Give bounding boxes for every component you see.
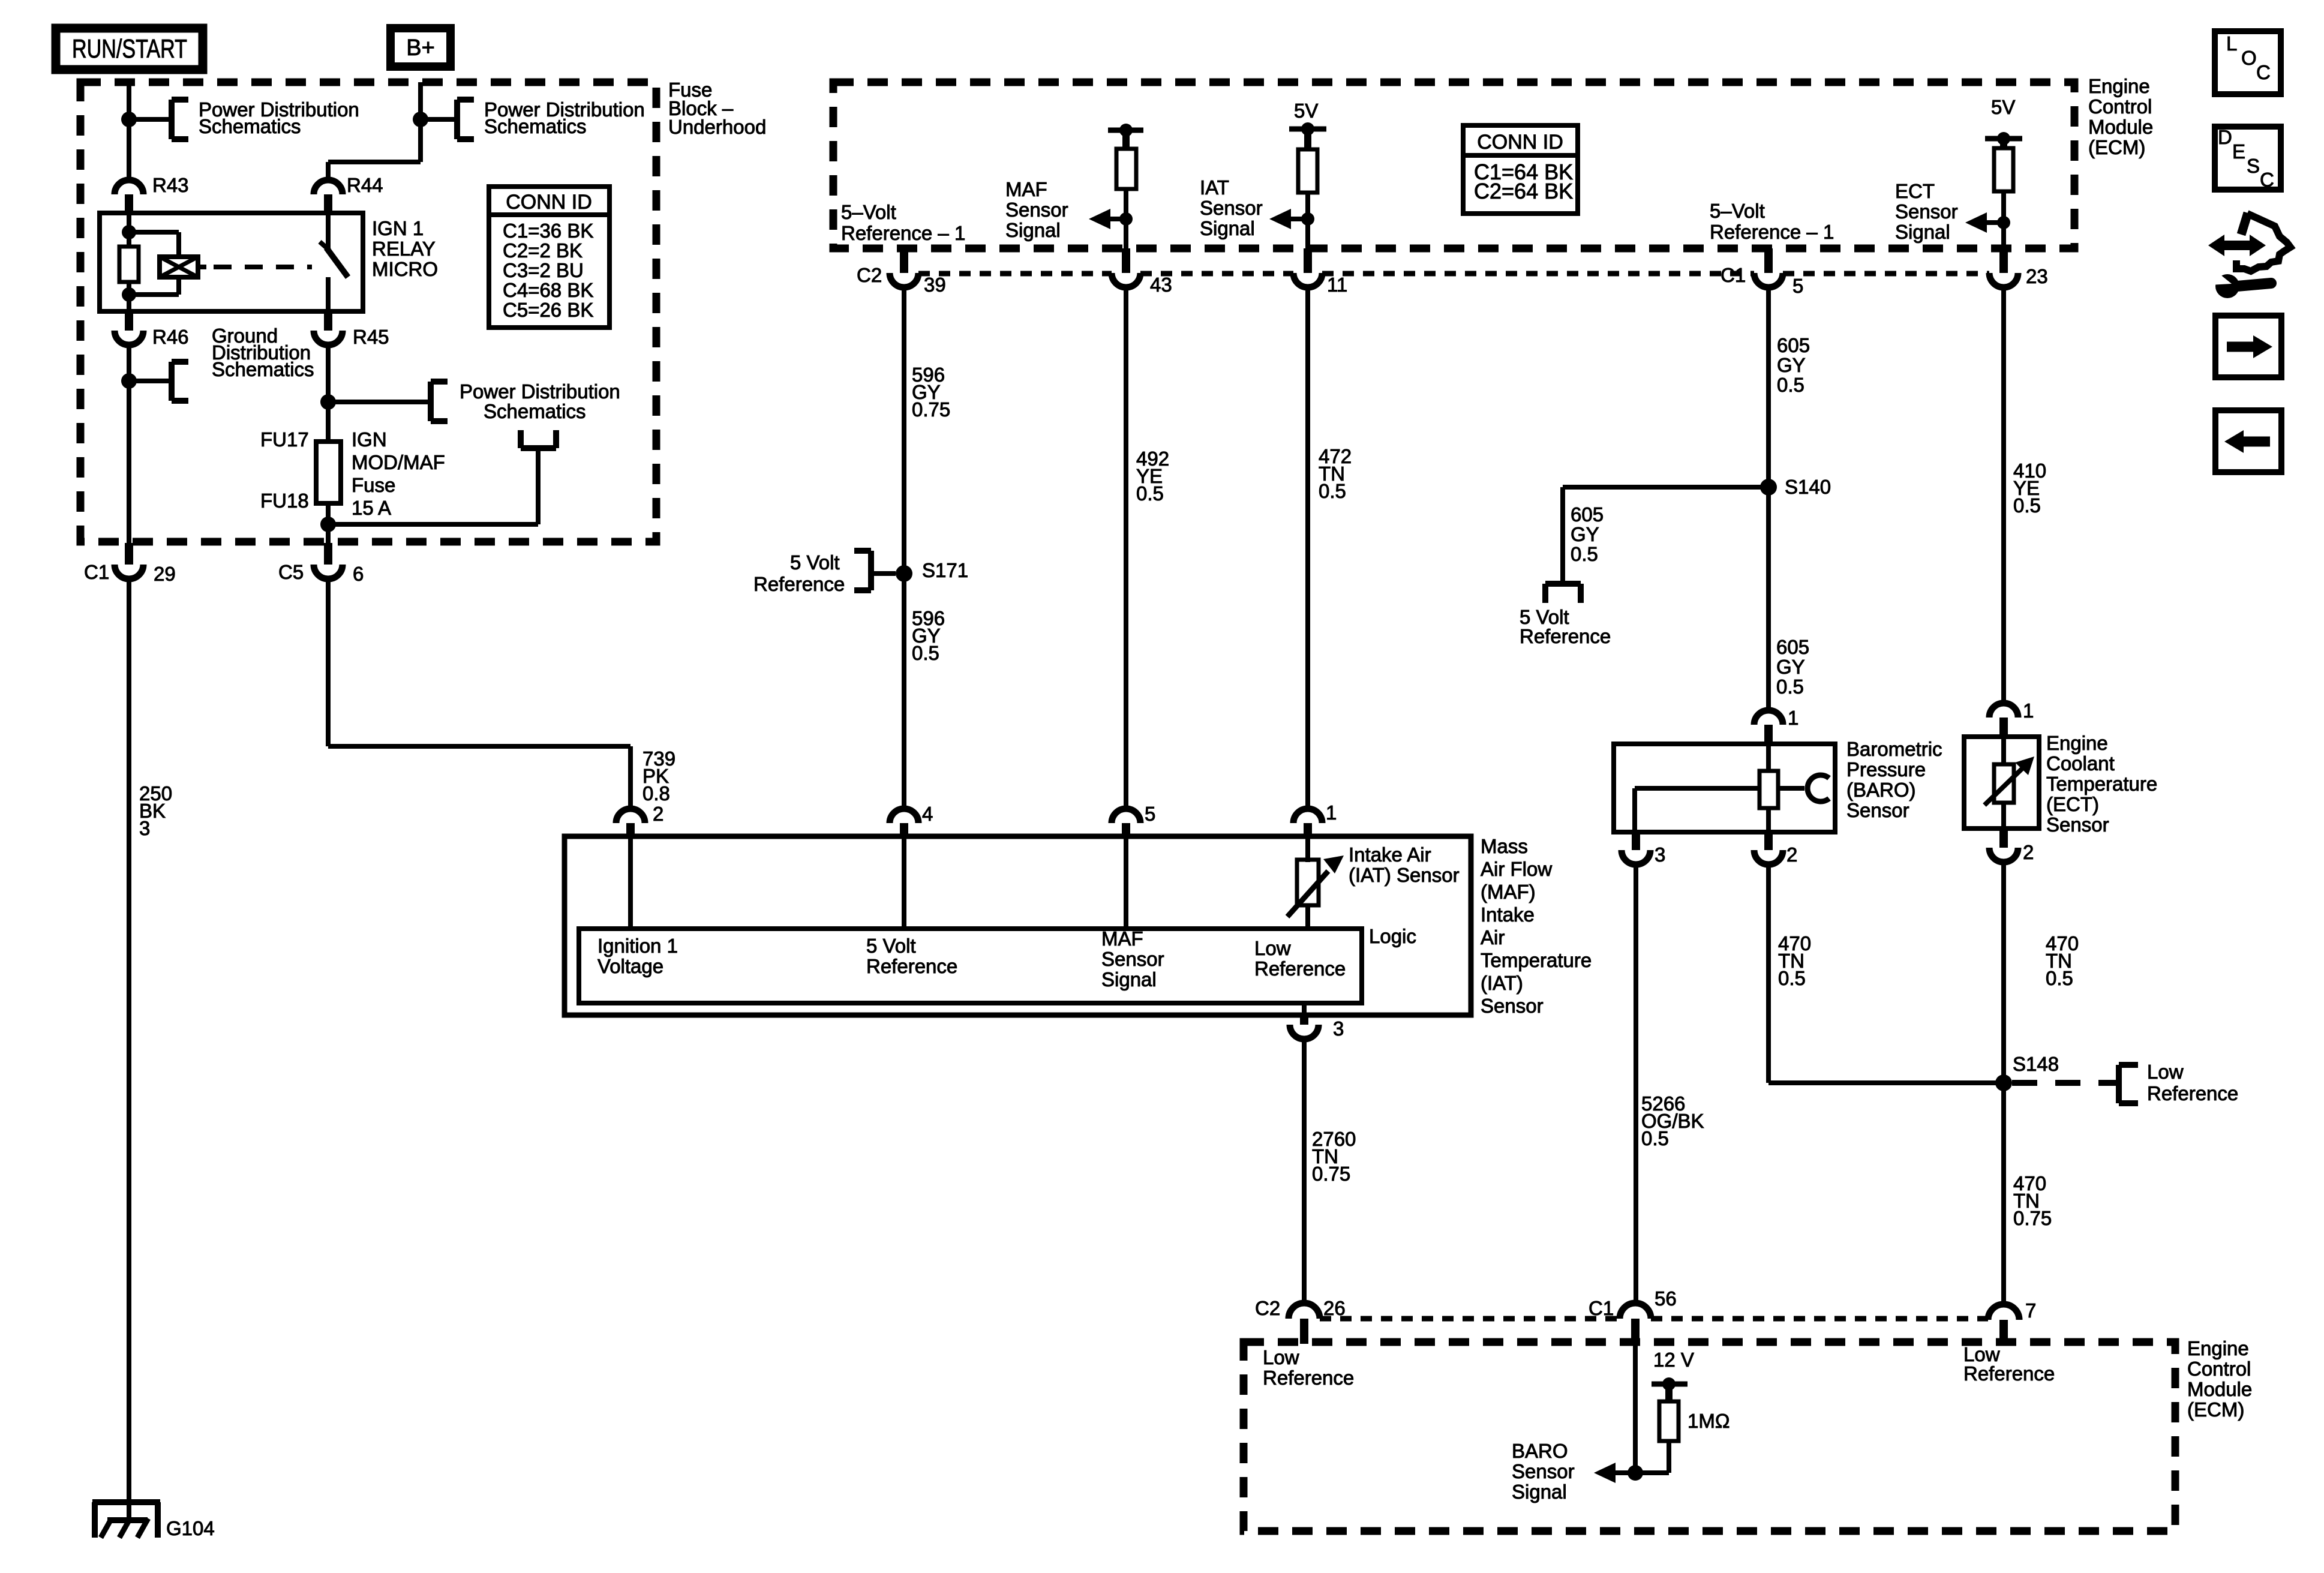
node junction fuse top branch [320, 394, 336, 410]
connector C2 pin 39 [900, 248, 908, 273]
svg-text:2: 2 [2023, 841, 2034, 863]
connector C2 pin 26 [1289, 1303, 1320, 1319]
svg-text:ECT: ECT [1895, 180, 1935, 202]
svg-text:(ECM): (ECM) [2187, 1398, 2244, 1421]
ECT sensor box [1964, 737, 2039, 828]
svg-text:6: 6 [353, 563, 364, 585]
svg-text:R46: R46 [152, 326, 189, 348]
svg-text:GY: GY [1776, 656, 1805, 678]
svg-text:605: 605 [1777, 334, 1810, 356]
svg-text:0.75: 0.75 [912, 398, 950, 421]
svg-text:Sensor: Sensor [2046, 813, 2109, 836]
arrow ECT sensor signal [1987, 220, 2004, 225]
node ECT sensor signal tap [1997, 216, 2010, 229]
svg-text:Reference: Reference [1263, 1367, 1354, 1389]
splice S140 [1760, 479, 1777, 496]
svg-text:Mass: Mass [1481, 835, 1528, 857]
svg-text:L: L [2226, 32, 2237, 55]
svg-text:C5: C5 [278, 561, 304, 583]
svg-text:0.5: 0.5 [1319, 480, 1346, 502]
svg-text:Module: Module [2088, 116, 2153, 138]
svg-text:Reference: Reference [2147, 1082, 2238, 1104]
svg-text:MAF: MAF [1005, 178, 1047, 200]
ECM connector face fine dashed line (top) [918, 271, 1112, 277]
svg-text:Module: Module [2187, 1378, 2252, 1400]
svg-text:56: 56 [1655, 1287, 1677, 1310]
relay coil resistor [127, 213, 131, 247]
svg-text:FU17: FU17 [260, 428, 309, 451]
dashed reference link from S148 [2012, 1080, 2119, 1086]
wire branch to 5 volt reference bracket [1563, 485, 1768, 490]
svg-text:0.5: 0.5 [912, 642, 939, 664]
wire 2760 TN 0.75 [1302, 1039, 1307, 1304]
svg-text:(MAF): (MAF) [1481, 881, 1536, 903]
svg-text:C2=2 BK: C2=2 BK [503, 239, 582, 262]
svg-text:(IAT) Sensor: (IAT) Sensor [1349, 864, 1460, 886]
connector pin R44 [314, 180, 343, 194]
resistor ECT pull-up [1994, 148, 2013, 191]
resistor BARO internal [1759, 771, 1778, 808]
svg-text:Reference: Reference [1254, 957, 1346, 980]
BARO sensor pin 3 [1632, 832, 1640, 850]
svg-text:0.5: 0.5 [1778, 967, 1806, 989]
svg-text:Signal: Signal [1005, 219, 1061, 241]
svg-text:O: O [2241, 47, 2257, 69]
wire BARO sensor signal inside ECM [1633, 1344, 1638, 1473]
svg-text:Coolant: Coolant [2046, 752, 2115, 775]
thermistor ECT [1994, 764, 2014, 803]
svg-text:S: S [2247, 155, 2260, 177]
svg-text:3: 3 [139, 817, 150, 839]
svg-text:D: D [2218, 126, 2232, 148]
svg-text:FU18: FU18 [260, 490, 309, 512]
relay solenoid X box [160, 257, 198, 277]
CONN ID table (fuse block) [489, 187, 609, 328]
svg-text:Low: Low [2147, 1061, 2184, 1083]
svg-text:0.5: 0.5 [1776, 676, 1804, 698]
svg-text:C1: C1 [1589, 1297, 1614, 1319]
svg-text:1: 1 [1788, 707, 1798, 729]
BARO pressure port arc [1807, 775, 1829, 801]
connector C1 pin 56 [1620, 1303, 1651, 1319]
svg-text:2: 2 [653, 803, 663, 825]
svg-text:Ignition 1: Ignition 1 [597, 935, 678, 957]
fuse block underhood dashed box [80, 82, 656, 542]
MAF sensor pin 2 [616, 809, 645, 823]
BARO sensor pin 2 [1764, 832, 1773, 850]
wire B+ jog to relay [328, 160, 421, 164]
icon box arrow right [2215, 316, 2281, 377]
svg-text:0.5: 0.5 [2013, 494, 2041, 517]
wire 470 TN 0.5 (ECT) [2001, 862, 2006, 1304]
svg-text:0.75: 0.75 [2013, 1207, 2052, 1229]
svg-text:MICRO: MICRO [372, 258, 438, 280]
svg-text:Engine: Engine [2088, 75, 2150, 97]
icon box arrow left [2215, 410, 2281, 472]
reference bracket power distribution (fuse top) [431, 382, 448, 421]
svg-text:C1: C1 [1721, 264, 1746, 286]
reference bracket power distribution (left) [172, 100, 188, 139]
ECT sensor pin 2 [1999, 828, 2008, 848]
connector pin 43 [1122, 248, 1130, 273]
svg-text:S140: S140 [1785, 476, 1831, 498]
svg-text:RUN/START: RUN/START [72, 34, 187, 64]
svg-text:G104: G104 [166, 1517, 215, 1539]
wire 250 BK 3 to ground [127, 579, 131, 1520]
svg-text:5V: 5V [1991, 96, 2015, 118]
svg-text:39: 39 [924, 274, 946, 296]
ground G104 [92, 1502, 160, 1538]
wire 739 PK 0.8 from C5 to MAF pin 2 [326, 579, 331, 746]
relay coil parallel branch with solenoid [129, 230, 179, 235]
svg-text:IAT: IAT [1200, 176, 1229, 199]
node IAT sensor signal tap [1301, 212, 1314, 226]
svg-text:Signal: Signal [1512, 1481, 1567, 1503]
connector C1 pin 29 [125, 543, 133, 565]
svg-text:Pressure: Pressure [1846, 758, 1926, 781]
svg-text:0.5: 0.5 [1571, 543, 1598, 565]
wire RUN/START feed [127, 82, 131, 180]
connector C5 pin 6 [324, 543, 332, 565]
icon box LOC [2215, 31, 2281, 94]
arrow IAT sensor signal [1291, 217, 1308, 221]
node junction ground distribution branch [121, 373, 137, 389]
svg-text:3: 3 [1333, 1017, 1344, 1040]
svg-text:5–Volt: 5–Volt [1710, 200, 1765, 222]
MAF sensor pin 1 [1293, 809, 1322, 823]
svg-text:4: 4 [922, 803, 933, 825]
svg-text:0.5: 0.5 [2046, 967, 2073, 989]
arrow MAF sensor signal [1109, 217, 1126, 221]
svg-text:11: 11 [1327, 274, 1347, 296]
svg-text:Intake Air: Intake Air [1349, 843, 1431, 866]
svg-text:Intake: Intake [1481, 903, 1535, 926]
svg-text:S171: S171 [922, 559, 968, 581]
svg-text:Low: Low [1254, 937, 1291, 959]
wire branch to power distribution reference [129, 117, 172, 122]
svg-text:C1: C1 [84, 561, 109, 583]
wire B+ feed [418, 82, 423, 162]
resistor MAF pull-up [1116, 149, 1136, 189]
svg-text:605: 605 [1571, 503, 1604, 526]
svg-text:C1=36 BK: C1=36 BK [503, 220, 593, 242]
svg-text:Sensor: Sensor [1895, 200, 1958, 223]
svg-text:Sensor: Sensor [1101, 948, 1164, 970]
connector pin 11 [1304, 248, 1312, 273]
svg-text:Reference – 1: Reference – 1 [841, 222, 965, 244]
svg-text:(IAT): (IAT) [1481, 972, 1523, 994]
svg-text:(ECT): (ECT) [2046, 793, 2099, 815]
connector C1 pin 5 [1764, 248, 1773, 273]
relay K: IGN 1 RELAY MICRO box [100, 213, 363, 311]
svg-text:B+: B+ [406, 35, 435, 61]
connector pin 7 [1988, 1304, 2019, 1320]
relay actuation dashed link [214, 265, 312, 269]
svg-text:Reference – 1: Reference – 1 [1710, 221, 1834, 243]
svg-text:R43: R43 [152, 174, 189, 196]
splice S171 [896, 565, 912, 582]
svg-text:(ECM): (ECM) [2088, 136, 2145, 158]
svg-text:CONN ID: CONN ID [506, 191, 592, 214]
svg-text:Barometric: Barometric [1846, 738, 1942, 760]
svg-text:IGN: IGN [352, 428, 387, 451]
svg-text:Voltage: Voltage [597, 955, 663, 977]
node MAF sensor signal tap [1119, 212, 1133, 226]
icon wrench and part outline [2208, 235, 2266, 256]
reference bracket power distribution (fuse bottom) [521, 430, 556, 448]
ECT sensor pin 1 [1989, 703, 2018, 718]
svg-text:S148: S148 [2013, 1053, 2059, 1075]
svg-text:Engine: Engine [2046, 732, 2108, 754]
node junction run/start branch [121, 112, 137, 127]
svg-text:Power Distribution: Power Distribution [460, 380, 620, 403]
svg-text:CONN ID: CONN ID [1477, 131, 1563, 154]
svg-text:Reference: Reference [1963, 1362, 2055, 1385]
svg-text:23: 23 [2026, 265, 2048, 287]
svg-text:Control: Control [2088, 95, 2152, 118]
svg-text:5: 5 [1792, 275, 1803, 297]
svg-text:(BARO): (BARO) [1846, 779, 1916, 801]
svg-text:Sensor: Sensor [1200, 197, 1263, 219]
svg-text:1: 1 [1326, 801, 1337, 824]
resistor IAT pull-up [1298, 149, 1317, 193]
svg-text:0.75: 0.75 [1312, 1163, 1350, 1185]
MAF/IAT sensor outer box [565, 836, 1471, 1015]
svg-text:Engine: Engine [2187, 1337, 2249, 1359]
wire R46 to ground distribution [127, 345, 131, 543]
svg-text:Sensor: Sensor [1846, 799, 1909, 821]
svg-text:GY: GY [1777, 354, 1806, 376]
svg-text:0.5: 0.5 [1777, 374, 1804, 396]
node junction fuse bottom branch [320, 517, 336, 532]
svg-text:E: E [2232, 140, 2245, 163]
svg-text:BARO: BARO [1512, 1440, 1568, 1462]
svg-text:Schematics: Schematics [484, 400, 586, 422]
wire 410 YE 0.5 [2001, 287, 2006, 703]
svg-text:C2: C2 [857, 264, 882, 286]
wire 472 TN 0.5 [1305, 287, 1310, 809]
svg-text:Underhood: Underhood [668, 116, 766, 138]
svg-text:Fuse: Fuse [352, 474, 395, 496]
reference bracket ground distribution [172, 362, 188, 401]
svg-text:Low: Low [1263, 1346, 1299, 1368]
svg-text:Control: Control [2187, 1358, 2251, 1380]
svg-text:Temperature: Temperature [2046, 773, 2157, 795]
CONN ID table (ECM) [1463, 125, 1578, 214]
svg-text:2: 2 [1786, 843, 1797, 866]
connector pin R45 [324, 311, 332, 331]
svg-text:GY: GY [1571, 523, 1599, 545]
svg-text:3: 3 [1655, 843, 1665, 866]
splice S148 [1995, 1074, 2012, 1091]
svg-text:43: 43 [1150, 274, 1172, 296]
svg-text:1MΩ: 1MΩ [1688, 1410, 1730, 1432]
svg-text:Logic: Logic [1369, 925, 1416, 947]
svg-text:5 Volt: 5 Volt [866, 935, 916, 957]
BARO sensor box [1614, 744, 1835, 832]
arrow BARO sensor signal [1594, 1463, 1616, 1483]
relay switch blade [326, 213, 331, 248]
internal wires to logic [628, 836, 633, 929]
svg-text:C3=2 BU: C3=2 BU [503, 259, 584, 281]
svg-text:R45: R45 [353, 326, 389, 348]
svg-text:Reference: Reference [866, 955, 957, 977]
svg-text:C2=64 BK: C2=64 BK [1474, 179, 1573, 203]
svg-text:MOD/MAF: MOD/MAF [352, 451, 445, 473]
svg-text:Reference: Reference [1520, 625, 1611, 647]
svg-text:0.5: 0.5 [1136, 482, 1164, 505]
power feed box B+ [391, 28, 451, 67]
connector pin R46 [125, 311, 133, 331]
svg-text:Sensor: Sensor [1005, 199, 1068, 221]
svg-text:7: 7 [2025, 1299, 2036, 1322]
svg-text:C5=26 BK: C5=26 BK [503, 299, 593, 321]
svg-text:Signal: Signal [1200, 217, 1255, 239]
svg-text:0.8: 0.8 [642, 782, 670, 804]
svg-text:1: 1 [2023, 700, 2034, 722]
svg-text:5–Volt: 5–Volt [841, 201, 896, 223]
svg-text:12 V: 12 V [1653, 1349, 1694, 1371]
reference bracket 5 volt reference (S171) [871, 571, 896, 576]
svg-text:5 Volt: 5 Volt [790, 551, 840, 574]
svg-text:Schematics: Schematics [199, 115, 301, 137]
wire 605 GY 0.5 (from C1-5) [1766, 287, 1771, 710]
svg-text:R44: R44 [347, 174, 383, 196]
svg-text:Signal: Signal [1895, 221, 1950, 243]
svg-text:15 A: 15 A [352, 497, 391, 519]
svg-text:0.5: 0.5 [1641, 1127, 1669, 1149]
svg-text:C: C [2256, 61, 2271, 83]
ECM top dashed box [833, 82, 2074, 248]
wire branch to power distribution reference [421, 117, 457, 122]
wire R45 to fuse [326, 345, 331, 442]
reference bracket power distribution (B+) [457, 100, 474, 139]
svg-text:Schematics: Schematics [212, 358, 314, 380]
ECM bottom dashed box [1244, 1342, 2175, 1531]
ECM connector face fine dashed line (bottom) [1320, 1316, 1620, 1322]
svg-text:5V: 5V [1294, 100, 1318, 122]
resistor 1M ohm [1659, 1401, 1679, 1441]
reference bracket 5 volt reference (S140) [1545, 584, 1581, 603]
svg-text:RELAY: RELAY [372, 238, 436, 260]
svg-text:Signal: Signal [1101, 968, 1157, 990]
power feed box RUN/START [56, 28, 203, 70]
svg-text:C2: C2 [1255, 1297, 1280, 1319]
MAF sensor pin 4 [890, 809, 918, 823]
svg-text:Sensor: Sensor [1512, 1460, 1575, 1482]
wire 470 TN 0.5 (BARO low ref) [1766, 864, 1771, 1083]
reference bracket low reference (S148) [2119, 1065, 2138, 1103]
connector pin R43 [115, 180, 143, 194]
svg-text:Sensor: Sensor [1481, 995, 1544, 1017]
IAT thermistor [1297, 860, 1319, 905]
svg-text:IGN 1: IGN 1 [372, 217, 424, 239]
wire 5266 OG/BK 0.5 [1634, 864, 1638, 1304]
svg-text:Schematics: Schematics [484, 115, 587, 137]
svg-text:C: C [2260, 169, 2274, 191]
svg-text:Reference: Reference [753, 573, 845, 595]
node BARO signal junction [1614, 1470, 1669, 1475]
svg-text:5: 5 [1145, 803, 1155, 825]
MAF sensor pin 3 [1302, 1003, 1307, 1016]
BARO sensor pin 1 [1754, 710, 1783, 725]
svg-text:MAF: MAF [1101, 927, 1143, 950]
svg-text:Temperature: Temperature [1481, 949, 1592, 971]
MAF sensor pin 5 [1112, 809, 1140, 823]
wire 492 YE 0.5 [1124, 287, 1128, 809]
icon box DESC [2215, 127, 2281, 190]
wire 596 GY 0.75 [902, 287, 906, 809]
svg-text:Air Flow: Air Flow [1481, 858, 1552, 880]
svg-text:26: 26 [1323, 1297, 1346, 1319]
fuse FU17/FU18 IGN MOD/MAF 15 A [316, 442, 341, 503]
node junction B+ branch [413, 112, 428, 127]
connector pin 23 [1999, 248, 2008, 273]
svg-text:C4=68 BK: C4=68 BK [503, 279, 593, 301]
MAF logic box [579, 929, 1362, 1003]
svg-text:29: 29 [154, 563, 176, 585]
MAF signal pull-up: 5V rail bar [1108, 128, 1143, 133]
svg-text:Air: Air [1481, 926, 1505, 948]
svg-text:605: 605 [1776, 636, 1809, 658]
